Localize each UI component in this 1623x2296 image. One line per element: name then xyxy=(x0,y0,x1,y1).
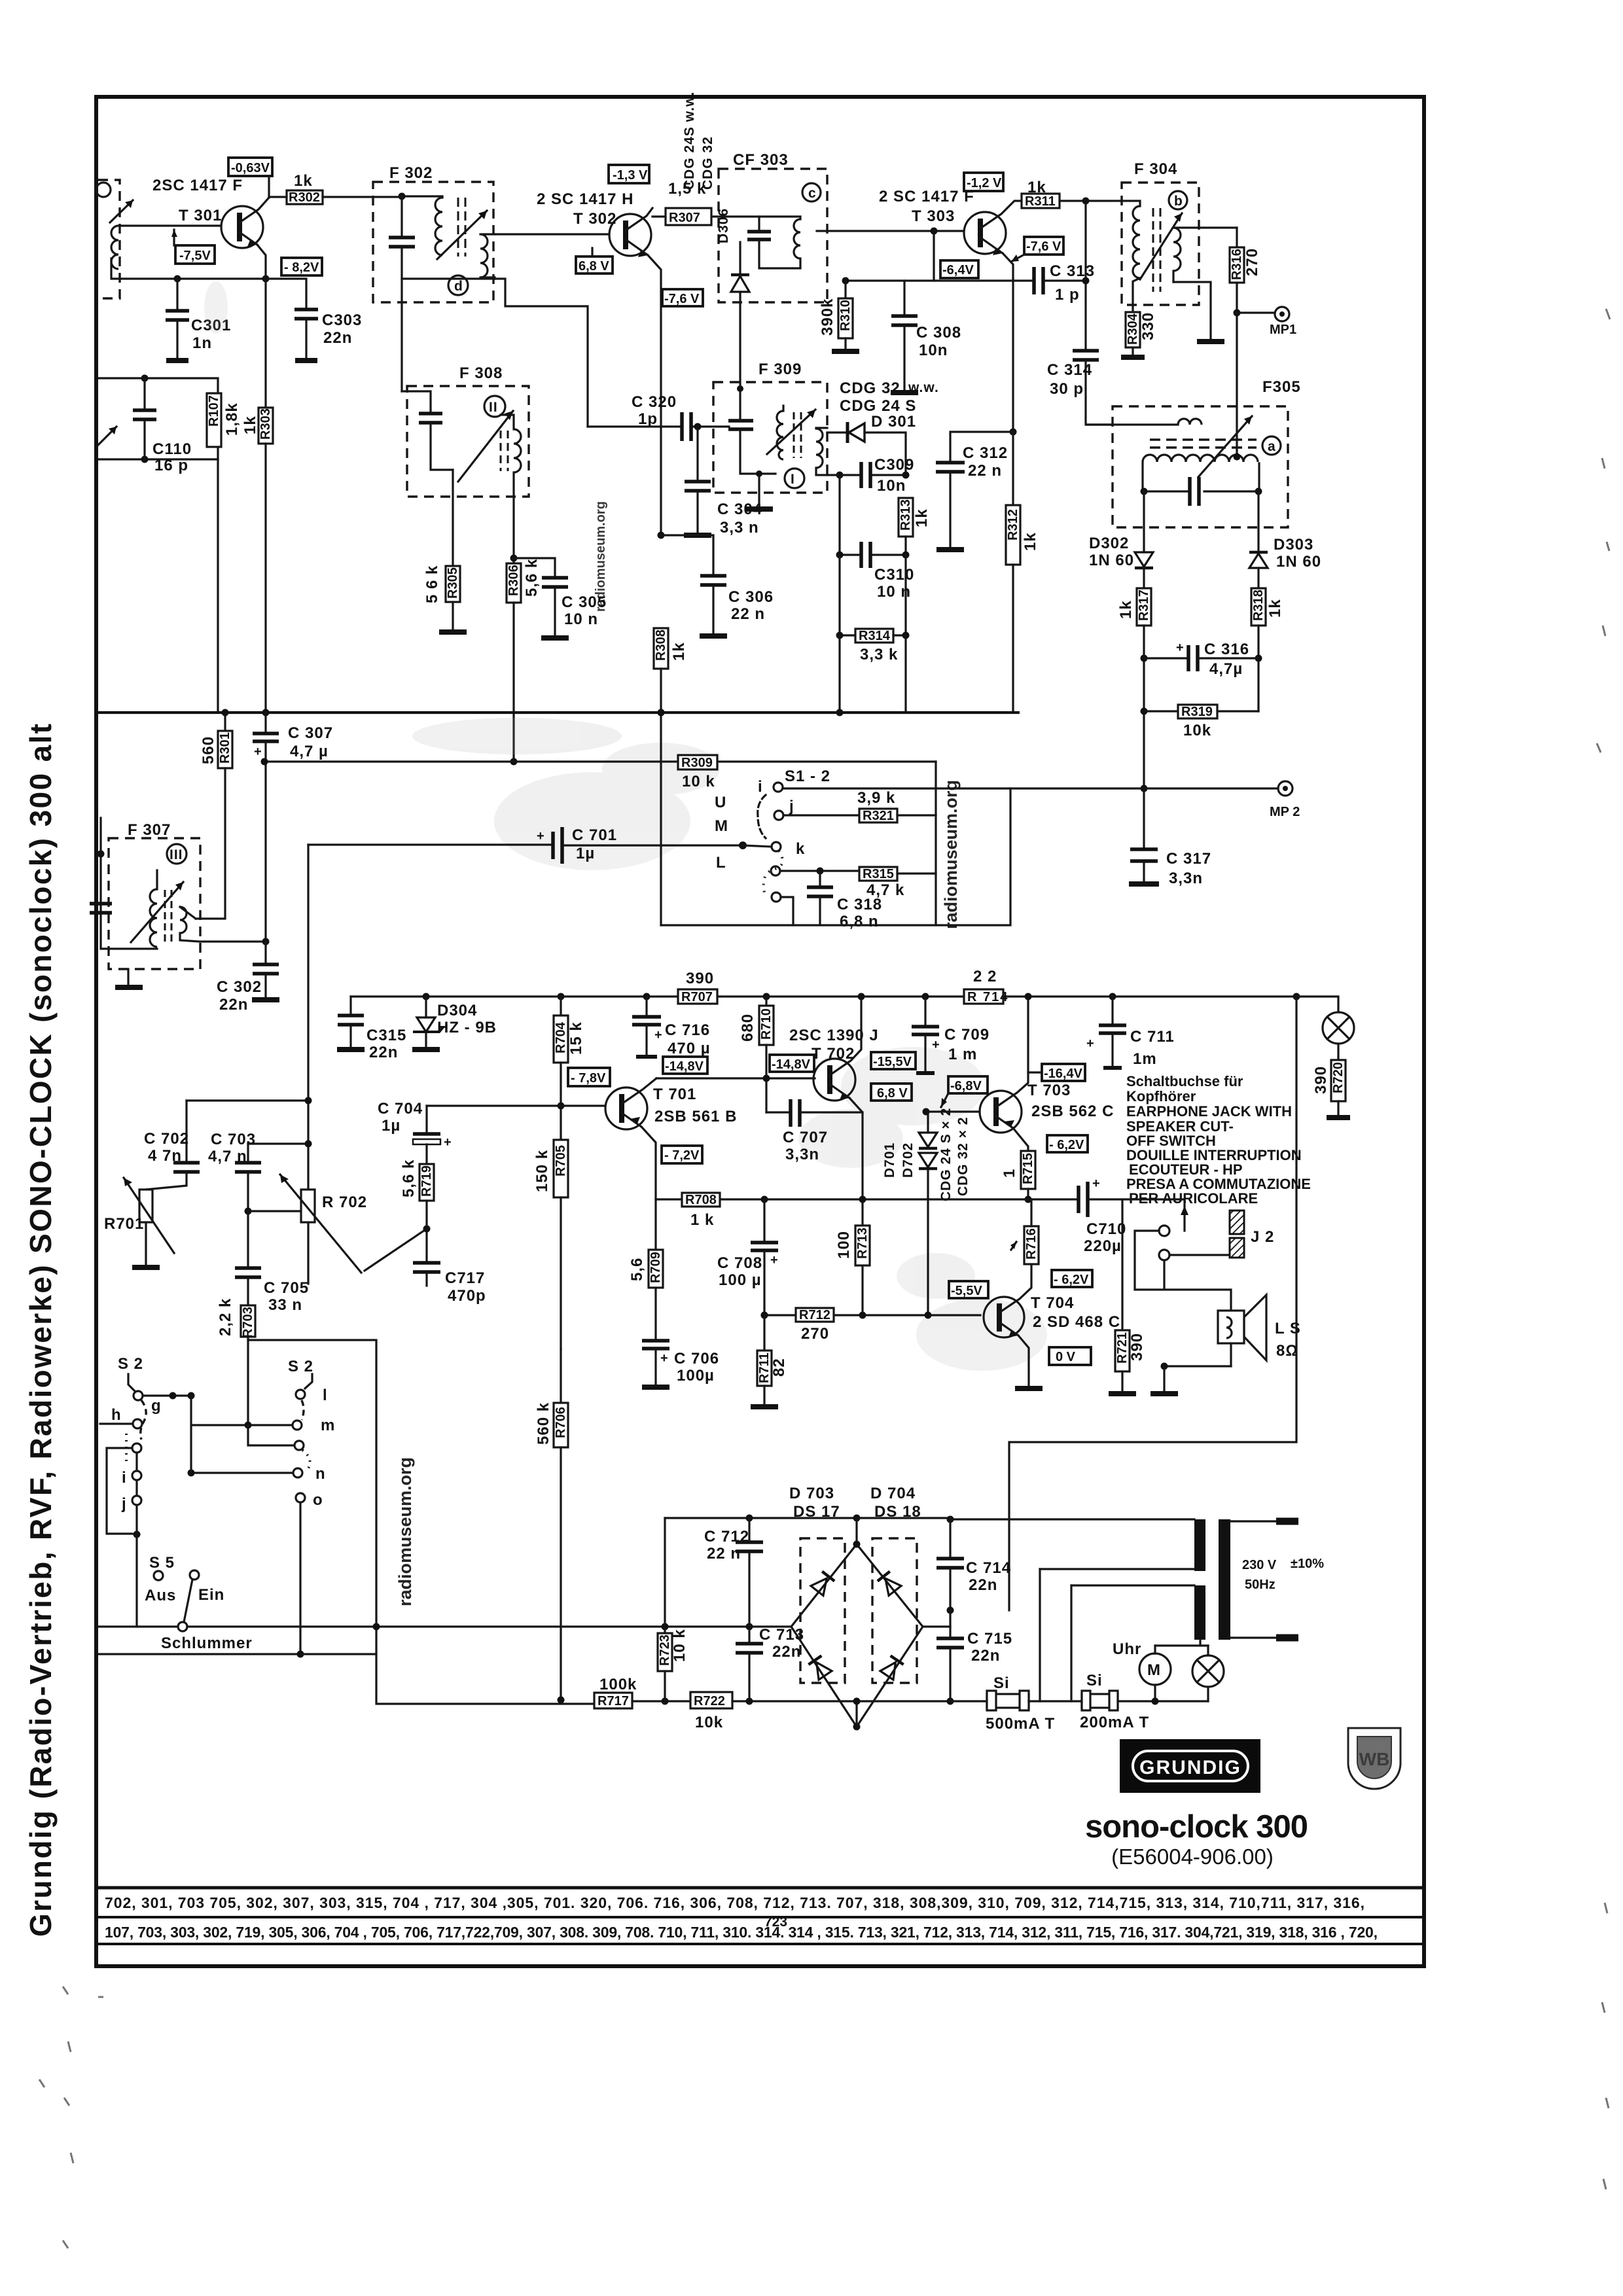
svg-text:CF 303: CF 303 xyxy=(733,151,789,169)
tone feed line down xyxy=(248,1340,594,1704)
svg-text:82: 82 xyxy=(770,1358,788,1377)
svg-text:2SB 561 B: 2SB 561 B xyxy=(654,1108,737,1125)
svg-text:R304: R304 xyxy=(1126,313,1140,345)
svg-text:560: 560 xyxy=(200,736,217,764)
svg-text:C 714: C 714 xyxy=(966,1559,1011,1577)
svg-text:Si: Si xyxy=(993,1674,1010,1692)
svg-text:R723: R723 xyxy=(658,1634,672,1666)
MP1 test point xyxy=(1237,307,1296,337)
C304 3,3n xyxy=(684,423,762,537)
svg-text:C717: C717 xyxy=(445,1269,485,1287)
transistor T303 xyxy=(964,208,1013,279)
right wafer xyxy=(305,1374,312,1388)
svg-text:C 318: C 318 xyxy=(837,896,882,913)
svg-text:10n: 10n xyxy=(877,477,906,495)
R309 line xyxy=(264,760,936,762)
svg-text:-5,5V: -5,5V xyxy=(951,1284,982,1298)
svg-text:i: i xyxy=(758,778,763,796)
svg-text:T 701: T 701 xyxy=(653,1086,696,1103)
voltage 0V xyxy=(1049,1347,1091,1365)
svg-text:R302: R302 xyxy=(289,190,320,205)
C318 6,8n xyxy=(807,871,882,930)
R715 xyxy=(1001,1151,1035,1203)
svg-text:220µ: 220µ xyxy=(1084,1237,1122,1255)
R709 5,6 xyxy=(628,1199,663,1339)
svg-text:22n: 22n xyxy=(772,1643,801,1661)
osc coil xyxy=(514,429,521,472)
transistor T701 xyxy=(605,1078,737,1199)
svg-text:T 703: T 703 xyxy=(1027,1082,1071,1099)
svg-text:+: + xyxy=(660,1351,668,1366)
left coil xyxy=(435,196,442,255)
coupling winding xyxy=(1178,419,1202,425)
C703 4,7n xyxy=(208,1131,312,1215)
svg-text:T 702: T 702 xyxy=(811,1045,855,1063)
svg-text:R314: R314 xyxy=(859,629,891,643)
F309 coil secondary xyxy=(816,429,823,468)
mains line through S5 xyxy=(98,1625,178,1627)
base line C704 to T701 xyxy=(427,1104,605,1106)
svg-text:R308: R308 xyxy=(654,629,668,661)
svg-text:5 6 k: 5 6 k xyxy=(423,565,441,603)
svg-text:330: 330 xyxy=(1139,312,1157,340)
svg-text:R310: R310 xyxy=(838,300,853,331)
svg-text:R307: R307 xyxy=(669,211,700,225)
svg-text:702, 301, 703 705, 302, 307,: 702, 301, 703 705, 302, 307, 303, 315, 7… xyxy=(105,1894,1364,1911)
svg-text:1k: 1k xyxy=(1266,599,1284,618)
svg-text:R719: R719 xyxy=(419,1165,434,1197)
voltage -7,2V xyxy=(662,1146,702,1163)
svg-text:1k: 1k xyxy=(670,642,688,661)
C307 4,7u xyxy=(253,713,333,942)
svg-text:2 SD 468 C: 2 SD 468 C xyxy=(1033,1313,1120,1331)
svg-text:270: 270 xyxy=(1243,248,1261,276)
svg-text:16 p: 16 p xyxy=(154,457,188,474)
R301 560 xyxy=(196,709,232,919)
svg-text:m: m xyxy=(321,1417,335,1434)
svg-text:d: d xyxy=(454,279,463,294)
rail xyxy=(351,995,678,997)
svg-text:2,2 k: 2,2 k xyxy=(217,1298,234,1336)
svg-text:Si: Si xyxy=(1086,1672,1103,1689)
svg-text:3,3n: 3,3n xyxy=(785,1146,819,1163)
svg-text:III: III xyxy=(169,847,183,862)
svg-text:R705: R705 xyxy=(554,1145,568,1176)
svg-text:R311: R311 xyxy=(1025,194,1056,209)
circle d xyxy=(448,275,468,295)
R712 270 xyxy=(796,1308,834,1343)
svg-text:F 304: F 304 xyxy=(1134,160,1177,178)
svg-text:S 2: S 2 xyxy=(118,1355,143,1373)
svg-text:WB: WB xyxy=(1359,1749,1390,1769)
svg-text:3,9 k: 3,9 k xyxy=(857,789,895,807)
R716 xyxy=(1010,1199,1039,1264)
svg-text:b: b xyxy=(1174,194,1183,209)
svg-text:C 701: C 701 xyxy=(572,826,617,844)
svg-text:HZ - 9B: HZ - 9B xyxy=(437,1019,497,1036)
voltage -6,2V (T703 emitter) xyxy=(1047,1135,1088,1152)
R314 3,3k xyxy=(836,555,910,716)
svg-text:- 7,8V: - 7,8V xyxy=(571,1071,606,1086)
svg-text:1k: 1k xyxy=(913,508,931,527)
S1-2 switch xyxy=(715,768,830,902)
contact i wire to MP2 line xyxy=(783,787,1278,789)
main winding xyxy=(1143,455,1258,462)
C702 47n xyxy=(144,1101,200,1190)
R711 82 xyxy=(751,1312,788,1407)
svg-text:4,7µ: 4,7µ xyxy=(1209,660,1243,678)
svg-text:j: j xyxy=(121,1495,127,1513)
C303 22n xyxy=(266,279,362,361)
transistor T301 xyxy=(221,198,269,279)
diodes on bridge xyxy=(811,1572,834,1596)
svg-text:R309: R309 xyxy=(681,756,713,770)
C301 1n xyxy=(166,279,231,361)
svg-text:2 2: 2 2 xyxy=(973,968,997,985)
C709 1m xyxy=(912,993,990,1074)
svg-text:3,3 k: 3,3 k xyxy=(860,646,898,663)
svg-text:500mA T: 500mA T xyxy=(986,1715,1055,1733)
svg-text:2SC 1417 F: 2SC 1417 F xyxy=(152,177,243,194)
transformer windings xyxy=(950,1519,1324,1701)
voltage -7,8V xyxy=(568,1068,610,1086)
svg-text:R107: R107 xyxy=(207,395,221,427)
right coil xyxy=(480,234,488,277)
svg-text:390: 390 xyxy=(1312,1066,1330,1094)
C715 22n xyxy=(923,1610,1012,1705)
R318 1k xyxy=(1251,588,1284,711)
C310 10n xyxy=(836,475,915,601)
svg-text:F 308: F 308 xyxy=(459,364,503,382)
svg-text:R 702: R 702 xyxy=(322,1193,367,1211)
svg-text:230 V: 230 V xyxy=(1242,1558,1277,1572)
svg-text:R709: R709 xyxy=(649,1252,663,1283)
svg-text:100: 100 xyxy=(835,1231,853,1259)
svg-text:R722: R722 xyxy=(694,1694,725,1708)
svg-text:F 309: F 309 xyxy=(758,361,802,378)
svg-text:D 704: D 704 xyxy=(870,1485,916,1502)
svg-text:R720: R720 xyxy=(1331,1062,1346,1093)
svg-text:1N 60: 1N 60 xyxy=(1276,553,1321,571)
svg-text:22 n: 22 n xyxy=(968,462,1002,480)
svg-text:+: + xyxy=(1092,1176,1100,1191)
voltage -0,63V xyxy=(228,158,272,198)
S5 on/off switch xyxy=(145,1554,253,1652)
svg-text:C 708: C 708 xyxy=(717,1254,762,1272)
svg-text:C 712: C 712 xyxy=(704,1528,749,1545)
svg-text:C 320: C 320 xyxy=(632,393,677,411)
D306 feed from F303 bottom into F309 top xyxy=(739,302,741,389)
svg-text:6,8 n: 6,8 n xyxy=(840,913,879,930)
wire antenna to T301 base xyxy=(118,224,221,226)
diode D306 xyxy=(739,292,741,302)
svg-text:10 n: 10 n xyxy=(564,610,598,628)
resistor R107 1,8k xyxy=(207,393,221,447)
svg-text:-7,6 V: -7,6 V xyxy=(664,292,700,306)
left coil xyxy=(1122,201,1140,206)
R308 1k xyxy=(654,628,688,713)
svg-text:C 316: C 316 xyxy=(1204,641,1249,658)
antenna coil box F301 (clipped by frame) xyxy=(96,180,133,298)
svg-text:+: + xyxy=(1086,1036,1094,1051)
svg-text:c: c xyxy=(808,186,817,201)
svg-text:1N 60: 1N 60 xyxy=(1089,552,1134,569)
svg-text:10 k: 10 k xyxy=(682,773,715,790)
T703 base wire xyxy=(926,1110,980,1112)
core dashes xyxy=(457,198,459,256)
svg-text:10n: 10n xyxy=(919,342,948,359)
L2 line with R712 xyxy=(764,1314,980,1316)
svg-text:i: i xyxy=(122,1469,127,1487)
svg-text:C710: C710 xyxy=(1086,1220,1126,1238)
svg-text:R717: R717 xyxy=(597,1694,629,1708)
svg-text:390: 390 xyxy=(1128,1333,1146,1361)
svg-text:D304: D304 xyxy=(437,1002,477,1019)
C316 4,7u electrolytic xyxy=(1144,641,1258,678)
svg-text:1 k: 1 k xyxy=(690,1211,714,1229)
frame border xyxy=(96,97,1424,1966)
svg-text:CDG 32: CDG 32 xyxy=(700,136,715,190)
svg-text:R716: R716 xyxy=(1024,1228,1039,1260)
svg-text:D302: D302 xyxy=(1089,535,1129,552)
svg-text:2 SC 1417 F: 2 SC 1417 F xyxy=(879,188,974,205)
C717 470p xyxy=(413,1263,486,1305)
R303 1k vertical xyxy=(241,279,273,713)
F303 out to T303 base wire xyxy=(817,230,963,232)
block to bus xyxy=(217,459,219,713)
svg-text:3,3 n: 3,3 n xyxy=(720,519,759,537)
C312 22n xyxy=(936,432,1013,550)
R312 1k xyxy=(1006,432,1039,713)
C706 100u xyxy=(642,1341,719,1387)
svg-text:Kopfhörer: Kopfhörer xyxy=(1126,1088,1196,1104)
svg-text:T 303: T 303 xyxy=(912,207,955,225)
R710 680 xyxy=(739,993,774,1113)
transistor T302 xyxy=(609,208,661,535)
R722 10k xyxy=(690,1692,950,1731)
svg-text:CDG 32: CDG 32 xyxy=(840,380,901,397)
svg-text:R319: R319 xyxy=(1181,705,1213,719)
svg-text:1µ: 1µ xyxy=(576,845,595,862)
svg-text:C 715: C 715 xyxy=(967,1630,1012,1648)
primary terminals xyxy=(1230,1520,1277,1522)
right coil xyxy=(1173,228,1181,271)
svg-text:Schlummer: Schlummer xyxy=(161,1634,253,1652)
svg-text:+: + xyxy=(254,745,262,759)
svg-text:R303: R303 xyxy=(259,408,273,440)
F303 ceramic filter box xyxy=(682,92,827,302)
voltage -1,3V xyxy=(609,165,649,183)
C308 10n xyxy=(891,281,961,393)
R701 volume pot xyxy=(104,1178,174,1267)
svg-text:C 314: C 314 xyxy=(1047,361,1092,379)
circle c xyxy=(802,183,821,202)
svg-text:CDG 24 S × 2: CDG 24 S × 2 xyxy=(938,1108,954,1201)
R319 10k xyxy=(1144,705,1258,739)
R707 390 in rail xyxy=(678,970,717,1004)
svg-text:g: g xyxy=(151,1397,162,1415)
tuning arrow xyxy=(437,211,487,259)
svg-text:- 6,2V: - 6,2V xyxy=(1049,1138,1084,1152)
D301 diode xyxy=(827,422,906,475)
voltage -5,5V xyxy=(949,1281,988,1298)
svg-text:R706: R706 xyxy=(554,1407,568,1438)
svg-text:-6,8V: -6,8V xyxy=(950,1079,982,1093)
clock motor Uhr + lamp xyxy=(1113,1640,1224,1705)
svg-text:1µ: 1µ xyxy=(382,1117,401,1135)
svg-text:-14,8V: -14,8V xyxy=(665,1059,704,1074)
R307 1,5k xyxy=(652,180,726,225)
svg-text:1 m: 1 m xyxy=(948,1046,977,1063)
svg-text:R703: R703 xyxy=(241,1307,255,1338)
svg-text:DS 17: DS 17 xyxy=(793,1503,840,1521)
svg-text:+: + xyxy=(932,1038,940,1052)
svg-text:C315: C315 xyxy=(366,1027,406,1044)
svg-text:C 709: C 709 xyxy=(944,1026,990,1044)
svg-text:C 703: C 703 xyxy=(211,1131,256,1148)
svg-text:R712: R712 xyxy=(799,1308,830,1322)
svg-text:C 302: C 302 xyxy=(217,978,262,996)
left wafer xyxy=(128,1374,135,1392)
svg-text:R713: R713 xyxy=(855,1227,870,1259)
C716 470u xyxy=(632,993,711,1058)
main bus wire xyxy=(98,711,1020,714)
svg-text:C 711: C 711 xyxy=(1130,1028,1175,1046)
svg-text:o: o xyxy=(313,1491,323,1509)
svg-text:-7,6 V: -7,6 V xyxy=(1026,239,1061,254)
svg-text:560 k: 560 k xyxy=(535,1402,552,1445)
C317 3,3n xyxy=(1129,788,1211,887)
svg-text:R711: R711 xyxy=(757,1352,772,1383)
svg-text:CDG 24S w.w.: CDG 24S w.w. xyxy=(682,92,697,190)
svg-text:C310: C310 xyxy=(874,566,914,584)
svg-text:C 312: C 312 xyxy=(963,444,1008,462)
svg-text:D 301: D 301 xyxy=(871,413,916,431)
svg-text:2SB 562 C: 2SB 562 C xyxy=(1031,1103,1114,1120)
svg-text:270: 270 xyxy=(801,1325,829,1343)
svg-text:15 k: 15 k xyxy=(567,1021,585,1055)
svg-text:R707: R707 xyxy=(681,990,713,1004)
svg-text:D701: D701 xyxy=(882,1142,897,1178)
svg-text:-15,5V: -15,5V xyxy=(873,1055,912,1069)
lamp + R720 390 xyxy=(1009,993,1354,1611)
svg-text:-0,63V: -0,63V xyxy=(231,161,270,175)
svg-text:l: l xyxy=(323,1386,328,1404)
svg-text:Ein: Ein xyxy=(198,1586,224,1604)
F309 coil primary xyxy=(777,411,783,459)
R705 150k xyxy=(533,1139,568,1349)
svg-text:33 n: 33 n xyxy=(268,1296,302,1314)
R302 1k xyxy=(269,172,402,205)
svg-text:390: 390 xyxy=(686,970,714,987)
cap in F303 xyxy=(758,217,760,230)
svg-text:F305: F305 xyxy=(1262,378,1301,396)
C705 33n xyxy=(235,1211,309,1314)
bridge rectifier xyxy=(791,1515,923,1731)
svg-text:h: h xyxy=(111,1406,122,1424)
jack contacts + arrow xyxy=(1135,1199,1231,1311)
R719 5,6k xyxy=(400,1159,434,1263)
svg-text:5,6 k: 5,6 k xyxy=(523,559,541,597)
svg-text:-6,4V: -6,4V xyxy=(942,263,974,277)
svg-text:6,8 V: 6,8 V xyxy=(579,259,609,274)
svg-text:C 702: C 702 xyxy=(144,1130,189,1148)
C708 100u xyxy=(717,1199,778,1315)
R721 390 xyxy=(1109,1199,1146,1394)
R305 5,6k xyxy=(423,470,467,632)
svg-text:+: + xyxy=(1176,641,1184,655)
svg-text:R721: R721 xyxy=(1115,1332,1130,1364)
svg-text:R306: R306 xyxy=(507,565,521,596)
svg-text:R316: R316 xyxy=(1230,249,1244,280)
svg-text:1k: 1k xyxy=(241,415,259,434)
svg-text:1: 1 xyxy=(1001,1169,1018,1178)
svg-text:1 p: 1 p xyxy=(1055,286,1080,304)
C305 10n xyxy=(514,558,607,638)
C704 1u xyxy=(378,1100,452,1164)
svg-text:U: U xyxy=(715,794,726,811)
R708 1k xyxy=(682,1193,720,1229)
svg-text:R318: R318 xyxy=(1251,590,1266,621)
svg-text:107, 703, 303, 302,: 107, 703, 303, 302, 719, 305, 306, 704 ,… xyxy=(105,1924,1378,1941)
D302 1N60 xyxy=(1089,491,1153,588)
svg-text:22n: 22n xyxy=(971,1647,1000,1665)
R315 4,7k xyxy=(780,867,936,899)
svg-text:680: 680 xyxy=(739,1014,757,1042)
C712 22n xyxy=(665,1515,857,1627)
svg-text:1m: 1m xyxy=(1133,1050,1157,1068)
svg-text:100 µ: 100 µ xyxy=(719,1271,762,1289)
svg-text:J 2: J 2 xyxy=(1251,1228,1274,1246)
coil in F303 xyxy=(792,217,800,268)
svg-text:radiomuseum.org: radiomuseum.org xyxy=(395,1457,415,1606)
svg-text:723: 723 xyxy=(764,1915,787,1930)
svg-text:+: + xyxy=(654,1028,662,1042)
R717 100k xyxy=(594,1676,690,1708)
svg-text:C 317: C 317 xyxy=(1166,850,1211,868)
svg-text:C309: C309 xyxy=(874,456,914,474)
R321 3,9k xyxy=(783,789,936,823)
voltage -7,6V xyxy=(662,289,703,306)
R714 22 in rail xyxy=(964,968,1008,1004)
svg-text:C 706: C 706 xyxy=(674,1350,719,1368)
svg-text:C110: C110 xyxy=(152,440,192,458)
svg-text:6,8 V: 6,8 V xyxy=(877,1086,908,1101)
C320 1p coupling xyxy=(588,393,728,441)
svg-text:I: I xyxy=(791,472,795,487)
C306 22n xyxy=(658,532,774,637)
voltage 6,8V xyxy=(871,1084,912,1101)
LS speaker 8ohm xyxy=(1150,1295,1301,1394)
svg-text:C 707: C 707 xyxy=(783,1129,828,1146)
voltage -14,8V (T702 base) xyxy=(770,1055,814,1072)
svg-text:22 n: 22 n xyxy=(731,605,765,623)
svg-text:S1 - 2: S1 - 2 xyxy=(785,768,830,785)
svg-text:CDG 24 S: CDG 24 S xyxy=(840,397,916,415)
svg-text:22n: 22n xyxy=(969,1576,997,1594)
C714 22n xyxy=(857,1516,1011,1614)
svg-text:D306: D306 xyxy=(716,208,731,243)
voltage -7,6V xyxy=(1011,237,1063,262)
svg-text:4 7n: 4 7n xyxy=(148,1147,182,1165)
R704 15k xyxy=(554,993,585,1139)
R313 1k xyxy=(899,498,931,555)
svg-text:F 307: F 307 xyxy=(128,821,171,839)
svg-text:-1,3 V: -1,3 V xyxy=(613,168,648,183)
R311 1k xyxy=(1007,179,1122,209)
svg-text:C 307: C 307 xyxy=(288,724,333,742)
svg-text:MP 2: MP 2 xyxy=(1270,805,1300,819)
